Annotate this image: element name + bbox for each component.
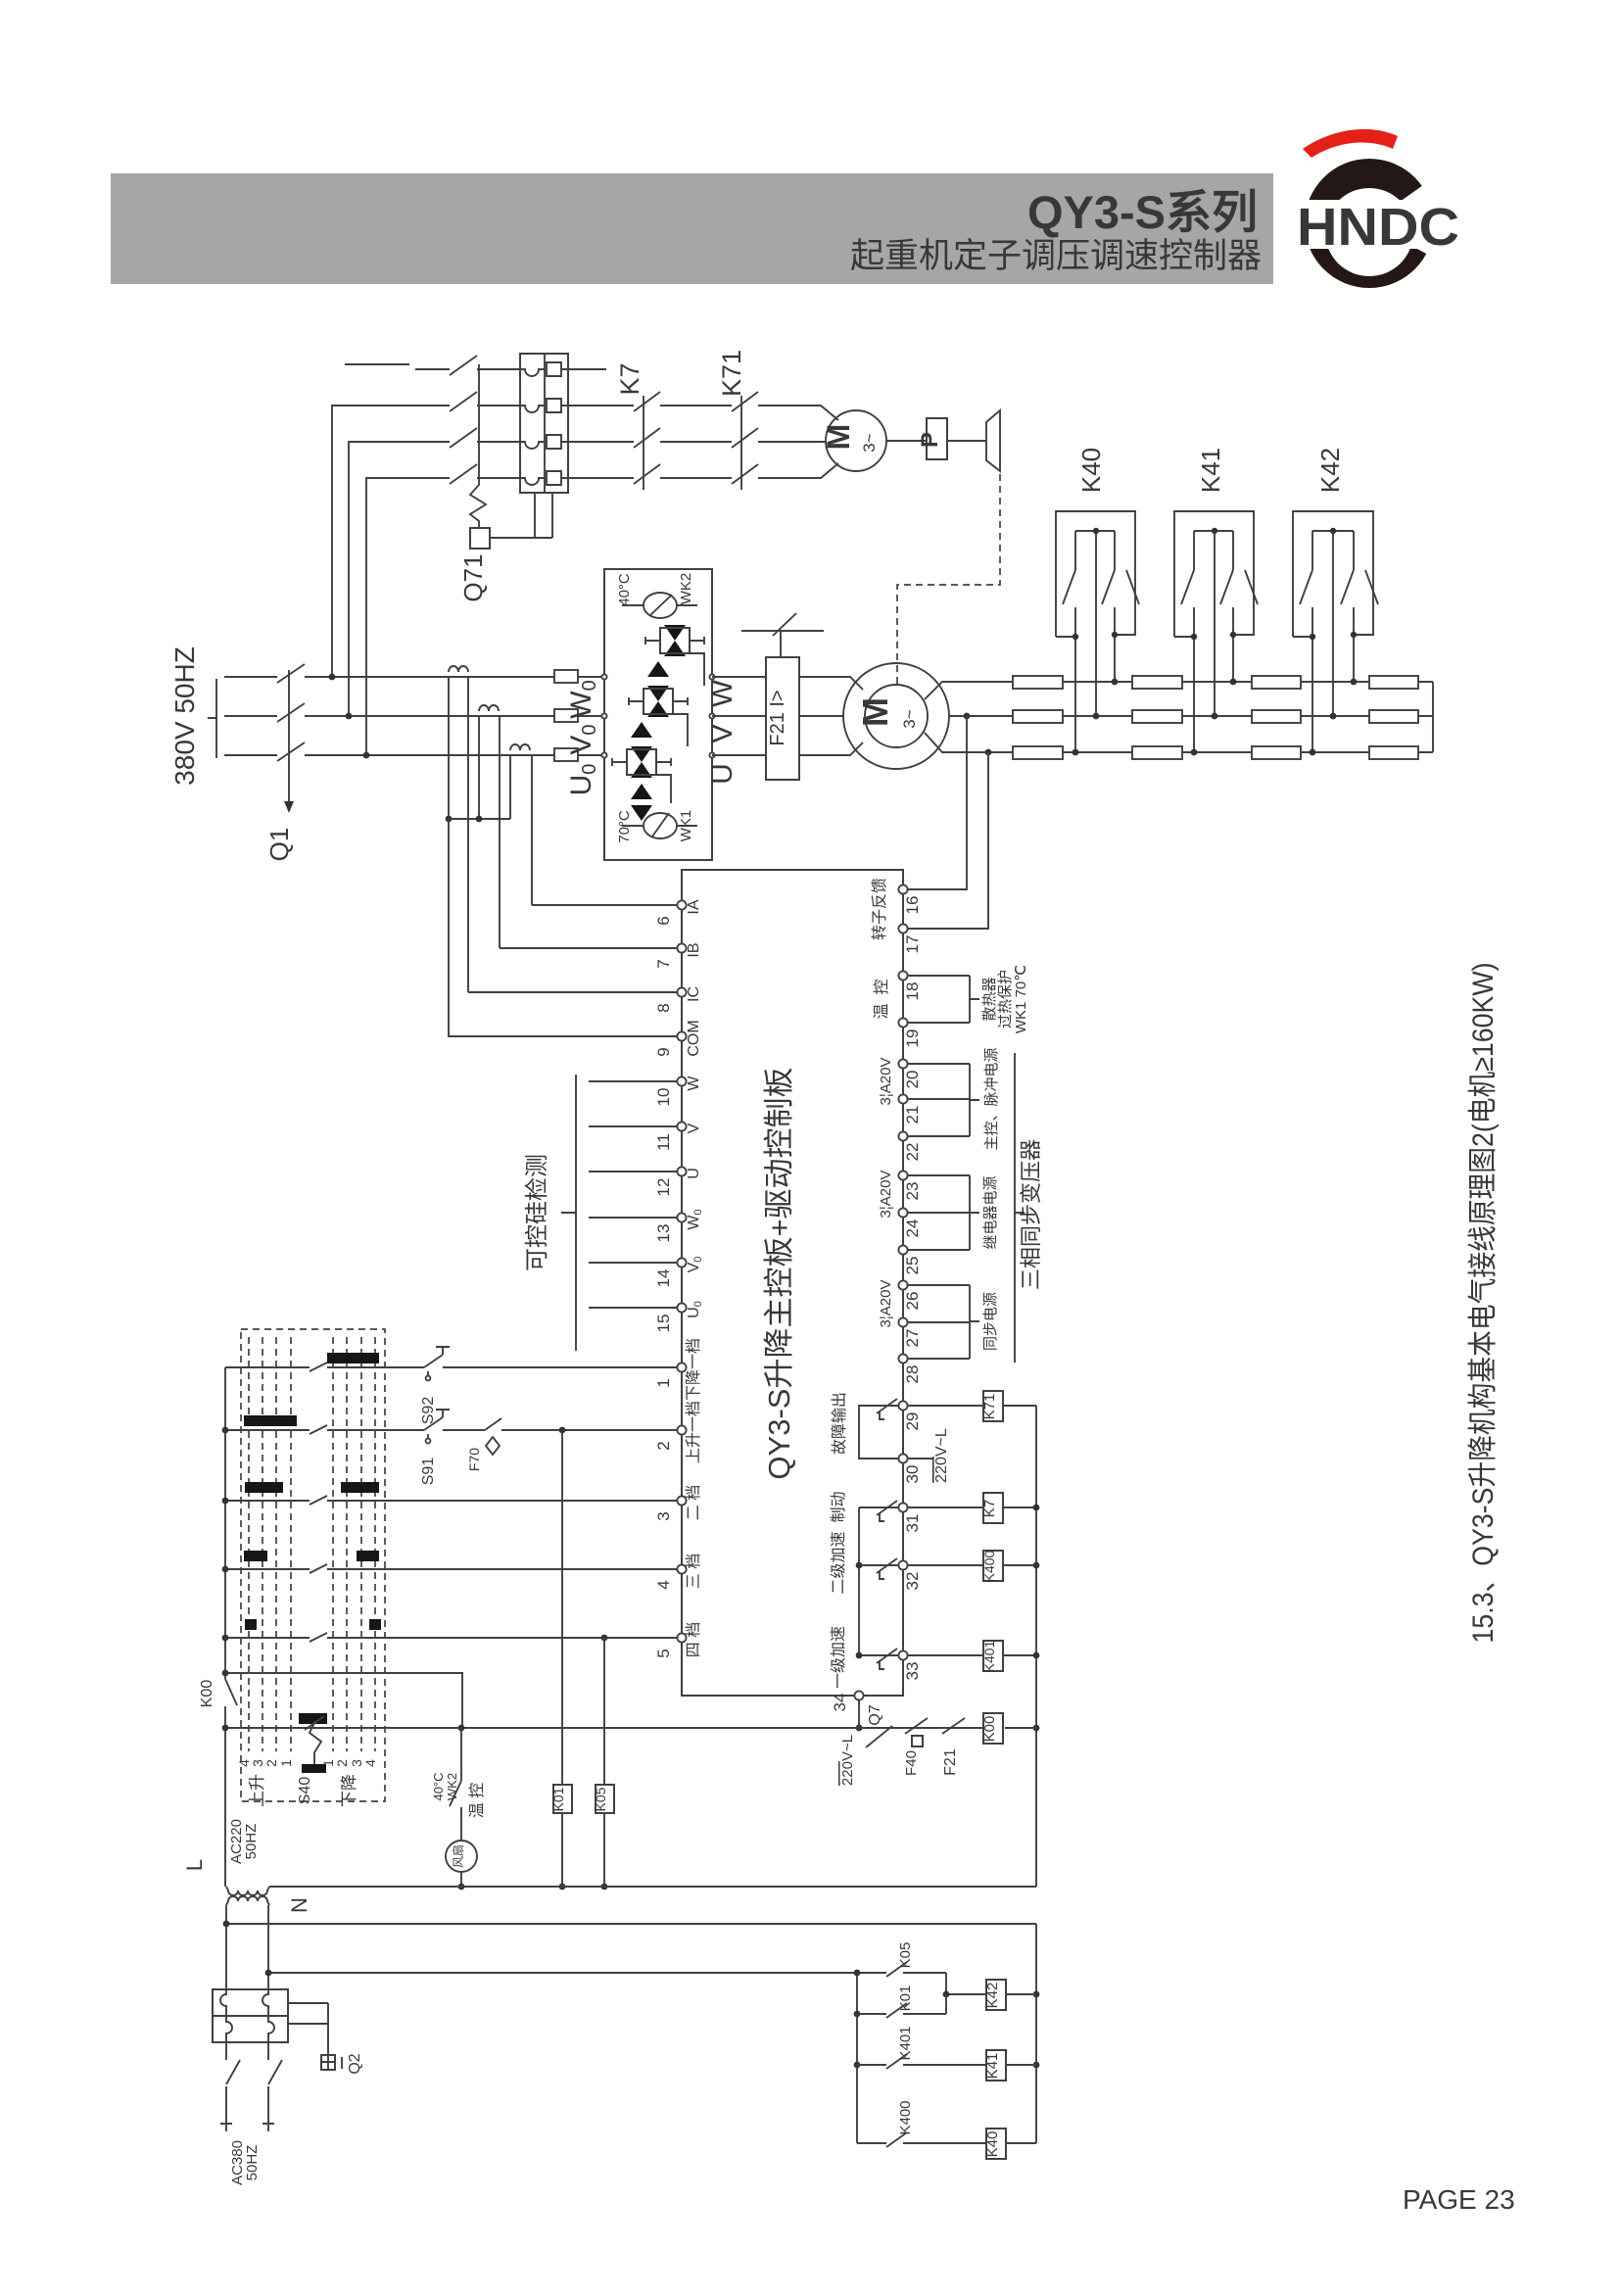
wire K40 to bus <box>1006 2142 1036 2144</box>
pin 23 terminal <box>898 1171 907 1179</box>
cam bar row3a <box>245 1482 283 1493</box>
svg-text:K00: K00 <box>981 1716 998 1743</box>
wire K401 row <box>857 2064 986 2066</box>
pin 12 terminal <box>677 1167 686 1175</box>
svg-text:U: U <box>706 763 739 785</box>
svg-text:21: 21 <box>903 1106 922 1124</box>
wire rotor to pin17 <box>907 752 988 929</box>
svg-text:19: 19 <box>903 1029 922 1048</box>
contact K400 <box>886 2132 907 2147</box>
svg-text:IC: IC <box>686 986 702 1002</box>
wire pole4 feeder vertical from phase U <box>366 478 450 755</box>
wire K01 row <box>857 1994 946 2014</box>
fuse F U0 <box>554 748 578 761</box>
svg-text:1: 1 <box>278 1759 294 1767</box>
node feeder K401 <box>854 2062 861 2069</box>
blade Q2 pole B <box>268 2042 282 2124</box>
svg-text:QY3-S系列: QY3-S系列 <box>1027 186 1258 238</box>
svg-text:二 档: 二 档 <box>685 1485 702 1520</box>
resistor R row3 col1 <box>1013 746 1063 759</box>
pin 29 terminal <box>898 1401 907 1410</box>
resistor row2 segments <box>1063 715 1433 717</box>
node feeder K05 <box>854 1970 861 1977</box>
svg-text:18: 18 <box>903 982 922 1001</box>
wire row4 to pin4 <box>225 1568 678 1570</box>
node bypass left <box>222 1670 229 1677</box>
wire K400 to bus <box>1003 1564 1036 1566</box>
svg-text:N: N <box>287 1897 311 1913</box>
wire row2 to pin2 <box>225 1429 678 1431</box>
relay return bus <box>1035 1406 1037 1887</box>
pin 11 terminal <box>677 1122 686 1130</box>
svg-text:F70: F70 <box>466 1448 482 1471</box>
resistor R row1 col3 <box>1252 676 1301 689</box>
svg-text:起重机定子调压调速控制器: 起重机定子调压调速控制器 <box>850 237 1262 275</box>
svg-text:温 控: 温 控 <box>873 980 890 1020</box>
cam bar row5a <box>245 1619 257 1630</box>
contactor K40 bracket <box>1056 511 1135 637</box>
svg-text:4: 4 <box>654 1580 673 1589</box>
pin 4 terminal <box>677 1564 686 1573</box>
resistor row1 segments <box>1063 681 1433 683</box>
wire pole1 lead <box>415 368 450 370</box>
node bus K42 <box>1033 1991 1040 1998</box>
block element pole A <box>220 1989 232 2042</box>
wire pole1 stub left <box>345 363 409 365</box>
svg-text:U: U <box>686 1168 702 1179</box>
thermal contact F70 <box>485 1418 501 1430</box>
thermostat WK1 <box>644 813 677 838</box>
svg-text:33: 33 <box>903 1662 922 1681</box>
wire S40 bypass <box>225 1673 462 1728</box>
module terminal W0 <box>601 674 606 679</box>
cam blade row4 <box>310 1564 327 1573</box>
svg-text:W0: W0 <box>565 680 600 718</box>
node row5 K05 <box>601 1635 608 1642</box>
node phase V feeder <box>346 713 353 720</box>
svg-text:12: 12 <box>654 1178 673 1197</box>
svg-text:K05: K05 <box>593 1787 608 1811</box>
wire contact chain vertical <box>858 1507 860 1655</box>
wire pin stub <box>907 1249 970 1251</box>
svg-text:K05: K05 <box>897 1942 914 1969</box>
contactor K7 blade pole2 <box>634 392 660 411</box>
wire phase V <box>305 715 604 717</box>
svg-text:8: 8 <box>654 1003 673 1012</box>
cam bar S40 <box>299 1713 327 1724</box>
wire primary left down <box>225 1905 227 1989</box>
node K01 N <box>559 1884 566 1890</box>
cam bar row4b <box>357 1551 379 1561</box>
K42 nodes <box>1330 528 1336 534</box>
wire phase U <box>305 754 604 756</box>
svg-text:K7: K7 <box>981 1500 998 1517</box>
pin 8 terminal <box>677 987 686 996</box>
node bus K41 <box>1033 2062 1040 2069</box>
relay K71 box <box>983 1391 1003 1421</box>
thyristor detect bracket <box>561 1075 576 1351</box>
main motor M2 outer circle <box>843 663 949 769</box>
pin 19 terminal <box>898 1018 907 1027</box>
breaker Q71 blade pole3 <box>450 428 477 448</box>
contactor K7 blade pole4 <box>634 464 660 484</box>
svg-text:WK1: WK1 <box>678 810 694 842</box>
svg-text:散热器: 散热器 <box>981 977 998 1021</box>
svg-text:上升一档: 上升一档 <box>685 1401 702 1463</box>
svg-text:32: 32 <box>903 1572 922 1591</box>
wire M1 to P <box>886 440 927 442</box>
resistor R row2 col3 <box>1252 710 1301 723</box>
wire P to brake <box>947 440 986 442</box>
bus nodes <box>1033 1505 1040 1511</box>
logo red swoosh <box>1303 129 1398 158</box>
wire pole3 to block <box>477 441 520 443</box>
pin 7 terminal <box>677 943 686 952</box>
bracket group 26-28 <box>970 1285 979 1359</box>
pin 14 terminal <box>677 1258 686 1267</box>
svg-text:K71: K71 <box>717 350 746 397</box>
svg-text:WK1 70℃: WK1 70℃ <box>1013 965 1029 1033</box>
CT1 legs <box>449 677 468 992</box>
pin 31 terminal <box>898 1503 907 1511</box>
pin 20 terminal <box>898 1059 907 1068</box>
wire CT common bus <box>449 818 510 820</box>
svg-text:31: 31 <box>903 1514 922 1533</box>
wire gate stub <box>589 1307 678 1309</box>
resistor R row1 col1 <box>1013 676 1063 689</box>
wire fan to N <box>460 1872 462 1887</box>
limit switch S91 <box>424 1410 450 1438</box>
wire pin32 to K400 <box>907 1564 983 1566</box>
wire pin stub <box>907 1358 970 1360</box>
svg-text:IB: IB <box>686 942 702 957</box>
thyristor pair phase U <box>631 722 652 821</box>
svg-text:13: 13 <box>654 1224 673 1243</box>
cam bar row1 <box>327 1353 379 1363</box>
contactor K41 contact left <box>1181 531 1194 752</box>
pin 5 terminal <box>677 1633 686 1642</box>
svg-text:Q1: Q1 <box>264 828 294 862</box>
wire phase W stub <box>224 676 277 678</box>
thyristor module box <box>604 569 712 860</box>
contact F40 <box>905 1718 928 1734</box>
wire gate stub <box>589 1217 678 1219</box>
svg-text:2: 2 <box>263 1759 279 1767</box>
svg-text:3¦A20V: 3¦A20V <box>878 1171 894 1219</box>
svg-text:二级加速 制动: 二级加速 制动 <box>830 1492 847 1595</box>
contact K00 on feeder <box>225 1679 237 1705</box>
svg-text:25: 25 <box>903 1257 922 1275</box>
fuse F V0 <box>554 709 578 722</box>
svg-text:K41: K41 <box>984 2053 1001 2080</box>
svg-text:K7: K7 <box>615 362 644 395</box>
control board outline <box>682 870 903 1696</box>
contactor K41 contact right <box>1220 531 1258 682</box>
resistor R row3 col4 <box>1369 746 1418 759</box>
pin 13 terminal <box>677 1213 686 1221</box>
wire pole2 to block <box>477 405 520 407</box>
svg-text:温 控: 温 控 <box>468 1783 486 1818</box>
limit switch S92 <box>424 1347 450 1375</box>
svg-text:K400: K400 <box>897 2100 914 2134</box>
node chain 32 <box>856 1562 863 1569</box>
supply bracket <box>208 679 216 758</box>
overcurrent relay F21 box <box>766 657 799 780</box>
wire gate stub <box>589 1125 678 1127</box>
wire pin29 to K71 <box>907 1405 983 1407</box>
thyristor pair phase V <box>647 661 669 717</box>
resistor R row2 col2 <box>1132 710 1182 723</box>
bracket group 23-25 <box>970 1175 979 1250</box>
wire pole4 to motor M1 <box>758 463 838 478</box>
breaker Q71 blade pole1 <box>450 356 477 375</box>
wire pin stub <box>907 1174 970 1176</box>
thermostat WK2 <box>644 593 677 618</box>
module terminal W <box>709 674 714 679</box>
svg-text:K42: K42 <box>1315 448 1345 493</box>
svg-text:K40: K40 <box>1076 448 1106 493</box>
svg-text:40°C: 40°C <box>616 573 633 606</box>
node CT common A <box>446 816 453 823</box>
svg-text:一级加速: 一级加速 <box>830 1626 847 1689</box>
wire pin stub <box>907 1022 970 1024</box>
contactor K41 center <box>1214 531 1216 716</box>
overload element pole3 <box>520 435 568 449</box>
switch Q1 blade U <box>277 742 305 761</box>
node L2 rail <box>223 1921 230 1928</box>
contactor K41 bracket <box>1174 511 1254 637</box>
CT1 on phase W <box>449 666 468 672</box>
svg-text:下降一档: 下降一档 <box>685 1338 702 1401</box>
svg-text:2: 2 <box>654 1441 673 1450</box>
header gray bar <box>111 173 1273 284</box>
svg-text:Q7: Q7 <box>867 1704 883 1725</box>
svg-text:K71: K71 <box>981 1394 998 1420</box>
svg-text:14: 14 <box>654 1269 673 1288</box>
pin 24 terminal <box>898 1208 907 1217</box>
svg-text:3~: 3~ <box>900 709 919 728</box>
resistor R row2 col1 <box>1013 710 1063 723</box>
fault contact 29-30 <box>859 1399 899 1459</box>
svg-text:380V 50HZ: 380V 50HZ <box>169 646 200 786</box>
relay K7 box <box>983 1493 1003 1523</box>
pin 21 terminal <box>898 1094 907 1103</box>
AC380 overload block <box>213 1989 288 2042</box>
relay K400 box <box>983 1551 1003 1581</box>
svg-text:K40: K40 <box>984 2131 1001 2158</box>
wire pin stub <box>907 1321 970 1323</box>
svg-text:2: 2 <box>334 1759 350 1767</box>
contactor K7 blade pole3 <box>634 428 660 448</box>
wire primary right down <box>267 1905 269 1989</box>
breaker Q71 blade pole4 <box>450 464 477 484</box>
svg-text:过热保护: 过热保护 <box>997 970 1014 1028</box>
pin 16 terminal <box>898 885 907 893</box>
svg-text:主控、脉冲电源: 主控、脉冲电源 <box>983 1047 1000 1150</box>
overload block outline <box>520 354 568 493</box>
wire IB to pin7 <box>500 947 678 949</box>
relay K41 box <box>986 2050 1006 2081</box>
svg-text:可控硅检测: 可控硅检测 <box>524 1154 550 1271</box>
wire pole4 to K7 <box>568 477 634 479</box>
logo white band for letters <box>1287 200 1473 249</box>
cam column dashes up side <box>248 1337 250 1751</box>
pin 1 terminal <box>677 1363 686 1371</box>
wire pin stub <box>907 975 970 977</box>
cam blade row3 <box>310 1496 327 1505</box>
node K05 N <box>601 1884 608 1890</box>
switch Q1 blade V <box>277 703 305 722</box>
wire K05 to N <box>603 1813 605 1887</box>
pin 22 terminal <box>898 1131 907 1140</box>
wire pole4 K7 to K71 <box>660 477 732 479</box>
svg-text:K400: K400 <box>981 1550 997 1582</box>
fan circle <box>446 1841 477 1872</box>
wire IC to pin8 <box>468 991 678 993</box>
relay K01 box <box>553 1785 572 1813</box>
module terminal U0 <box>601 752 606 757</box>
bracket group 20-22 <box>970 1064 979 1136</box>
cam bar row3b <box>341 1482 379 1493</box>
wire gate stub <box>589 1171 678 1172</box>
S40 follower bar <box>302 1764 326 1773</box>
resistor R row1 col4 <box>1369 676 1418 689</box>
svg-text:15.3、QY3-S升降机构基本电气接线原理图2(电机≥16: 15.3、QY3-S升降机构基本电气接线原理图2(电机≥160KW) <box>1467 963 1500 1644</box>
svg-text:K01: K01 <box>897 1985 914 2012</box>
svg-text:COM: COM <box>686 1020 702 1056</box>
svg-text:K41: K41 <box>1196 448 1225 493</box>
svg-text:5: 5 <box>654 1649 673 1657</box>
svg-text:同步电源: 同步电源 <box>982 1292 999 1351</box>
svg-text:继电器电源: 继电器电源 <box>982 1175 999 1249</box>
master controller dashed box <box>241 1329 385 1801</box>
node CT common B <box>476 816 483 823</box>
wire pole2 K7 to K71 <box>660 405 732 407</box>
contactor K71 blade pole4 <box>732 464 758 484</box>
node feeder K01 <box>854 2011 861 2018</box>
resistor R row3 col3 <box>1252 746 1301 759</box>
module terminal V <box>709 713 714 718</box>
wire gate stub <box>589 1080 678 1082</box>
svg-text:24: 24 <box>903 1220 922 1238</box>
wire rotor bottom <box>925 733 1019 752</box>
wire gate stub <box>589 1262 678 1264</box>
overload block divider <box>544 354 546 493</box>
svg-text:20: 20 <box>903 1071 922 1089</box>
contactor K42 center <box>1332 531 1334 716</box>
svg-text:S92: S92 <box>420 1397 437 1425</box>
svg-text:23: 23 <box>903 1182 922 1201</box>
svg-text:11: 11 <box>654 1133 673 1151</box>
svg-text:下降: 下降 <box>340 1774 358 1807</box>
wire pin stub <box>907 1063 970 1065</box>
wire F21 to motor V <box>799 715 843 717</box>
fuse F W0 <box>554 670 578 683</box>
relay K42 box <box>986 1980 1006 2010</box>
wire pole2 to motor M1 <box>758 406 838 420</box>
relay K05 box <box>596 1785 614 1813</box>
bracket WK1 group 18-19 <box>970 976 979 1023</box>
svg-text:W: W <box>706 679 739 707</box>
node row2 K01 <box>559 1427 566 1434</box>
wire pin30 stub right <box>907 1458 932 1459</box>
wire K01 to N <box>561 1813 563 1887</box>
svg-text:16: 16 <box>903 896 922 915</box>
pin 6 terminal <box>677 900 686 909</box>
brake horn <box>986 410 1000 471</box>
contactor K71 blade pole2 <box>732 392 758 411</box>
svg-text:K401: K401 <box>897 2026 914 2060</box>
pin 2 terminal <box>677 1425 686 1434</box>
svg-text:三 档: 三 档 <box>685 1554 702 1589</box>
brake motor M1 circle <box>826 410 886 471</box>
svg-text:HNDC: HNDC <box>1297 198 1459 257</box>
wire pole2 feeder vertical from phase W <box>332 406 450 677</box>
svg-text:3¦A20V: 3¦A20V <box>878 1280 894 1328</box>
node fan N <box>458 1884 465 1890</box>
block element pole B <box>262 1989 274 2042</box>
wire F21 to motor W <box>799 677 863 690</box>
logo black C ring <box>1305 159 1434 288</box>
svg-text:K01: K01 <box>550 1787 566 1811</box>
svg-text:28: 28 <box>903 1365 922 1384</box>
breaker Q71 blade pole2 <box>450 392 477 411</box>
svg-text:15: 15 <box>654 1315 673 1333</box>
switch Q1 blade W <box>277 664 305 683</box>
svg-text:F40: F40 <box>903 1750 920 1776</box>
svg-text:U0: U0 <box>565 764 600 796</box>
thermostat contact WK2 fan <box>450 1728 461 1841</box>
transformer T primary winding <box>226 1887 269 1895</box>
svg-text:10: 10 <box>654 1088 673 1107</box>
pin 26 terminal <box>898 1280 907 1289</box>
overload element pole2 <box>520 399 568 412</box>
blade Q2 pole A <box>226 2042 240 2124</box>
svg-text:四 档: 四 档 <box>685 1622 702 1657</box>
breaker Q71 trip linkage <box>470 364 486 528</box>
wire IA to pin6 <box>532 904 678 906</box>
contactor K40 contact left <box>1063 531 1075 752</box>
pin 33 terminal <box>898 1650 907 1659</box>
rotor star point <box>1432 682 1434 752</box>
svg-text:PAGE 23: PAGE 23 <box>1403 2184 1515 2215</box>
svg-text:3~: 3~ <box>860 433 879 452</box>
wire N rail <box>269 1886 1036 1888</box>
svg-text:34: 34 <box>831 1694 849 1712</box>
svg-text:70°C: 70°C <box>616 810 633 843</box>
svg-text:K42: K42 <box>984 1983 1001 2009</box>
svg-text:故障输出: 故障输出 <box>831 1392 848 1455</box>
wire K05 corner to K42 <box>946 1973 986 1994</box>
wire rotor mid <box>949 715 1019 717</box>
transformer T secondary winding <box>226 1896 269 1905</box>
wire K05row rail <box>268 1972 946 1974</box>
contact K401 <box>886 2054 907 2069</box>
cam blade row5 <box>310 1633 327 1642</box>
wire pin stub <box>907 1135 970 1137</box>
cam blade row2 <box>310 1425 327 1434</box>
svg-text:风扇: 风扇 <box>451 1844 465 1868</box>
resistor R row3 col2 <box>1132 746 1182 759</box>
cam bar row5b <box>369 1619 381 1630</box>
svg-text:M: M <box>821 424 856 451</box>
node chain 33 <box>856 1652 863 1659</box>
cam bar row2 <box>244 1415 297 1426</box>
breaker Q2 box <box>321 2055 335 2070</box>
wire K7 to bus <box>1003 1507 1036 1508</box>
thyristor pair phase W <box>664 625 686 656</box>
wire K400 row <box>857 2142 986 2144</box>
